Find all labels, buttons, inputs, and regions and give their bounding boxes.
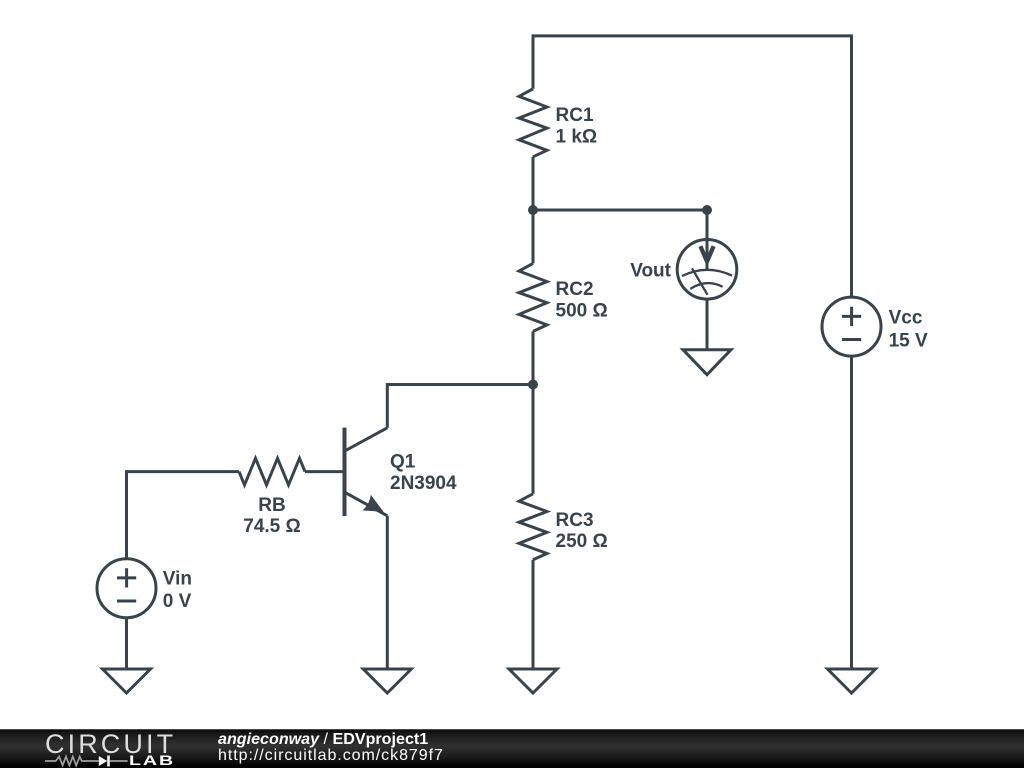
- svg-text:Vout: Vout: [630, 260, 671, 281]
- wire: node A to RC2 top: [532, 210, 535, 263]
- node junction dot at voltmeter branch: [702, 205, 712, 215]
- resistor RB: [239, 458, 305, 485]
- CircuitLab logo resistor-diode glyph: [43, 752, 129, 768]
- wire: node B to Q1 collector: [387, 385, 533, 428]
- transistor Q1 emitter diagonal: [346, 493, 388, 516]
- ground symbol below Vcc: [828, 669, 876, 693]
- svg-text:RB: RB: [258, 495, 285, 516]
- wire: RC3 bottom to ground: [532, 560, 535, 669]
- svg-text:1 kΩ: 1 kΩ: [556, 126, 598, 147]
- wire: top rail from RC1 top to Vcc top: [533, 36, 852, 297]
- transistor Q1 collector diagonal: [346, 428, 388, 451]
- voltage source Vcc body circle: [822, 297, 881, 356]
- CircuitLab logo wordmark LAB: [129, 753, 175, 767]
- transistor Q1 emitter arrowhead: [363, 495, 384, 512]
- resistor RC1: [519, 89, 547, 157]
- svg-text:15 V: 15 V: [889, 330, 928, 351]
- voltage source Vin plus sign: [117, 568, 136, 587]
- wire: node B to RC3 top: [532, 385, 535, 494]
- svg-text:RC3: RC3: [556, 510, 594, 531]
- node B junction dot (collector node): [528, 380, 538, 390]
- wire: RB left terminal to Vin top: [127, 472, 240, 559]
- footer bar: [0, 729, 1024, 768]
- svg-text:500 Ω: 500 Ω: [556, 301, 608, 322]
- svg-text:0 V: 0 V: [163, 591, 192, 612]
- voltmeter Vout arrow chevron: [700, 246, 713, 261]
- svg-text:RC2: RC2: [556, 279, 594, 300]
- voltage source Vin minus sign: [117, 600, 136, 603]
- voltmeter Vout needle: [692, 268, 708, 295]
- voltmeter Vout body circle: [677, 239, 737, 299]
- transistor Q1 base bar: [343, 428, 347, 516]
- ground symbol below Vin: [103, 669, 151, 693]
- footer project title: angieconway / EDVproject1: [218, 730, 428, 749]
- svg-text:RC1: RC1: [556, 105, 594, 126]
- resistor RC2: [519, 263, 547, 331]
- wire: corner down into voltmeter Vout: [706, 210, 709, 271]
- voltage source Vin body circle: [97, 559, 156, 618]
- wire: RC2 bottom to node B: [532, 331, 535, 384]
- svg-text:250 Ω: 250 Ω: [556, 531, 608, 552]
- wire: Q1 emitter to ground: [386, 516, 389, 669]
- svg-text:2N3904: 2N3904: [390, 473, 457, 494]
- node A junction dot: [528, 205, 538, 215]
- resistor RC3: [519, 494, 547, 560]
- svg-text:74.5 Ω: 74.5 Ω: [243, 516, 301, 537]
- voltmeter Vout meter face lower arc: [690, 283, 722, 289]
- svg-text:Vcc: Vcc: [889, 307, 923, 328]
- wire: node A to voltmeter branch corner: [533, 209, 707, 212]
- ground symbol below Q1 emitter: [363, 669, 411, 693]
- footer url: [218, 747, 444, 765]
- wire: Vcc bottom to ground: [850, 356, 853, 669]
- ground symbol below RC3: [509, 669, 557, 693]
- voltmeter Vout meter face upper arc: [682, 270, 732, 276]
- wire: Q1 base to RB right terminal: [305, 470, 345, 473]
- wire: Vin bottom to ground: [125, 618, 128, 669]
- ground symbol below Vout: [683, 350, 731, 375]
- svg-text:Q1: Q1: [390, 452, 416, 473]
- svg-text:Vin: Vin: [163, 569, 192, 590]
- CircuitLab logo wordmark CIRCUIT: [45, 731, 176, 758]
- voltage source Vcc plus sign: [842, 307, 861, 326]
- wire: RC1 bottom to node A: [532, 157, 535, 210]
- voltage source Vcc minus sign: [842, 338, 861, 341]
- wire: voltmeter Vout to ground: [706, 299, 709, 350]
